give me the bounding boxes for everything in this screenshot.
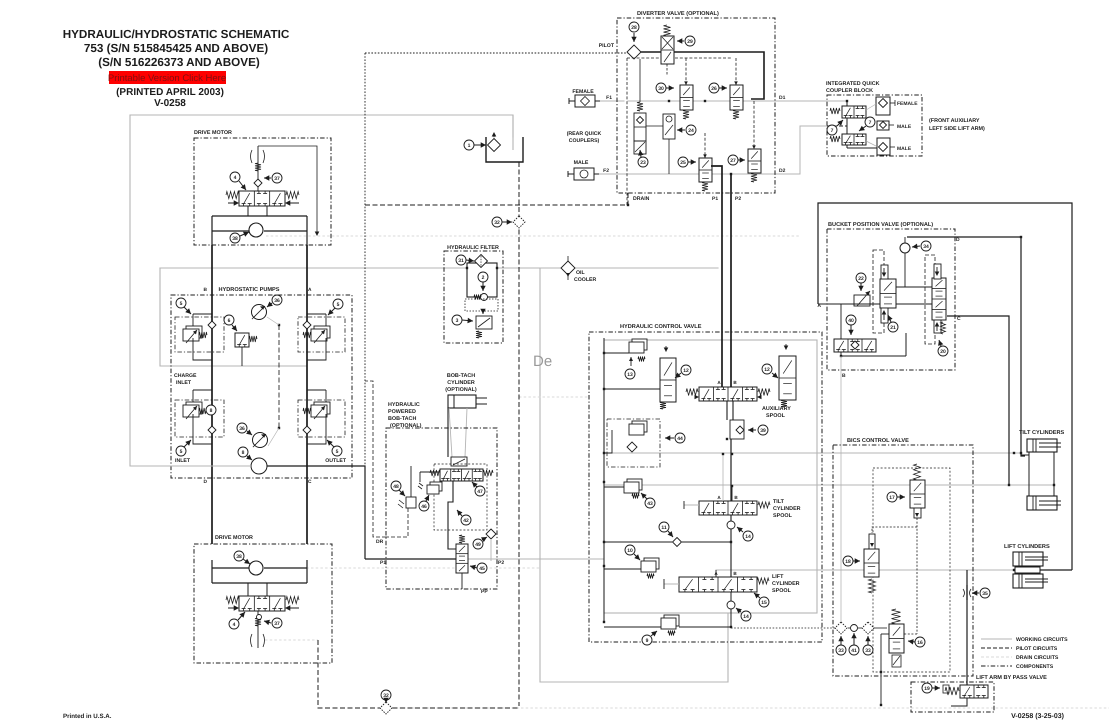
diamond 49 — [486, 529, 496, 539]
relief valve 10 — [604, 558, 659, 579]
svg-text:17: 17 — [889, 495, 895, 501]
wire 41-33 — [858, 627, 862, 629]
label 36 bottom — [237, 423, 247, 433]
wire hydrostatic loop right x307 — [306, 245, 308, 544]
svg-text:MALE: MALE — [897, 146, 912, 152]
svg-text:P2: P2 — [735, 196, 741, 202]
relief 44 box — [604, 419, 660, 467]
arrow 33 left — [838, 636, 843, 645]
arrow 7 lower — [837, 120, 843, 126]
pump bottom circle 36 — [253, 433, 268, 448]
svg-text:36: 36 — [239, 426, 245, 432]
wire D1 inside block — [827, 100, 847, 102]
wire tank drain vertical dashed — [518, 162, 520, 706]
arrow 24 — [677, 127, 685, 132]
drive motor top internals — [212, 146, 319, 245]
svg-text:(FRONT AUXILIARY: (FRONT AUXILIARY — [929, 118, 980, 124]
svg-text:49: 49 — [475, 542, 481, 548]
label 38 top — [230, 233, 240, 243]
svg-text:P1: P1 — [712, 196, 718, 202]
diamond 33 left — [835, 622, 847, 634]
strainer diamond — [488, 139, 501, 152]
junction tilt line a — [1013, 452, 1015, 454]
wire cylinder line 2 — [465, 408, 467, 457]
label 4 bottom — [229, 619, 239, 629]
label 38 bottom — [234, 551, 244, 561]
label 8 pump — [238, 447, 248, 457]
label 43 — [645, 498, 655, 508]
drive motor top circle — [249, 223, 263, 237]
svg-text:753 (S/N 515845425 AND ABOVE): 753 (S/N 515845425 AND ABOVE) — [84, 42, 268, 55]
spring left bottom drive valve — [226, 597, 239, 604]
svg-text:BUCKET POSITION VALVE (OPTIONA: BUCKET POSITION VALVE (OPTIONAL) — [828, 221, 933, 228]
label 7 upper — [865, 117, 875, 127]
arrow 43 — [641, 493, 647, 499]
wire tilt B port — [731, 486, 733, 501]
junction D corner — [1020, 236, 1022, 238]
orifice 14 lower — [727, 601, 735, 609]
wire D2 dashed inside — [827, 125, 847, 127]
svg-text:44: 44 — [677, 436, 683, 442]
arrow 38 to motor — [243, 559, 250, 564]
arrow 20 — [938, 340, 943, 346]
label 21 — [888, 322, 898, 332]
label 13 — [625, 369, 635, 379]
wire 40 feed — [840, 304, 842, 339]
wire hydrostatic loop left x212 — [211, 245, 213, 544]
wire B pilot drop to BICS — [840, 356, 842, 622]
label 6 — [224, 315, 234, 325]
bics control valve box — [833, 445, 973, 676]
arrow into bottom valve right — [285, 605, 290, 610]
arrow 9 — [651, 631, 657, 637]
node diamond D bottom — [208, 426, 216, 434]
bob-tach valve 46 — [418, 482, 442, 494]
wire bobtach to 45 — [448, 481, 456, 549]
bypass valve 3 — [476, 309, 492, 338]
node diamond A top — [303, 321, 311, 329]
wire pilot dashed to 25 — [704, 133, 706, 158]
oil cooler tick top — [567, 256, 569, 261]
svg-text:12: 12 — [764, 367, 770, 373]
wire working return loop bottom — [540, 268, 728, 682]
bics pilot dashed box — [873, 468, 950, 672]
wire bucket internal link 2 — [896, 303, 932, 305]
wire 45 down PP — [461, 573, 463, 589]
wire drive motor drain top — [266, 235, 519, 237]
svg-text:2: 2 — [482, 275, 485, 281]
filter diamond dotted — [480, 256, 482, 267]
wire drain line y236 — [519, 235, 800, 237]
hydrostatic pumps box — [171, 295, 352, 478]
arrow 8 pump — [246, 455, 252, 461]
drive motor top valve — [239, 191, 285, 206]
label 17 — [887, 492, 897, 502]
arrow 5 tr — [328, 308, 335, 315]
svg-text:DRAIN CIRCUITS: DRAIN CIRCUITS — [1016, 655, 1059, 661]
wire pilot line left vertical — [364, 53, 366, 543]
svg-text:9: 9 — [646, 638, 649, 644]
label 40 — [846, 315, 856, 325]
arrow to 32 lower — [383, 698, 388, 703]
bob-tach cylinder — [448, 395, 487, 408]
wire outlet to P1 — [267, 466, 365, 559]
label 1 strainer — [464, 140, 474, 150]
wire control valve left rail — [603, 338, 605, 622]
arrow 49 — [481, 537, 487, 542]
arrow 10 — [634, 554, 640, 560]
label 19 — [922, 683, 932, 693]
arrow 5 br — [327, 440, 334, 447]
label 4 top — [230, 172, 240, 182]
label 5 bottom-right — [332, 446, 342, 456]
svg-text:38: 38 — [236, 554, 242, 560]
arrow 5 tl — [184, 307, 191, 314]
label 32 lower — [381, 690, 391, 700]
wire F1-D1 through diverter — [628, 100, 775, 102]
wire P2 line to control valve — [468, 558, 604, 560]
label 18 — [843, 556, 853, 566]
wire coupler block bottom link — [847, 147, 877, 149]
arrow 14 lower — [736, 608, 742, 614]
arrow 22 — [858, 283, 863, 291]
wire bucket C to tilt lower — [947, 316, 1009, 486]
wire tilt cylinder line upper — [604, 452, 1021, 454]
wire 11 line — [604, 541, 672, 543]
junction tilt lower right — [1053, 484, 1055, 486]
diverter shuttle 24 — [646, 114, 675, 174]
wire DR dashed — [386, 508, 408, 537]
wire pilot 17 down dotted — [916, 518, 918, 634]
bics valve 18 — [864, 534, 879, 593]
svg-text:D2: D2 — [779, 168, 786, 174]
svg-text:LIFT ARM BY PASS VALVE: LIFT ARM BY PASS VALVE — [976, 675, 1047, 681]
svg-text:WORKING CIRCUITS: WORKING CIRCUITS — [1016, 637, 1068, 643]
wire 48 feed — [410, 466, 412, 497]
junction B — [840, 355, 842, 357]
svg-text:32: 32 — [494, 220, 500, 226]
label 36 top — [272, 295, 282, 305]
svg-text:CYLINDER: CYLINDER — [447, 380, 475, 386]
svg-text:D: D — [204, 479, 208, 485]
arrow 17 — [897, 494, 905, 499]
svg-text:C: C — [957, 316, 961, 322]
label 23 — [638, 157, 648, 167]
arrow 48 — [399, 490, 405, 496]
arrow 29 — [677, 38, 684, 43]
arrow 12 right — [772, 373, 778, 379]
wire pilot branch to 18 — [872, 527, 917, 533]
diverter valve 26 — [730, 81, 743, 119]
filter diamond — [475, 255, 488, 268]
svg-text:SPOOL: SPOOL — [773, 513, 793, 519]
wire drain line bottom — [380, 707, 1109, 709]
wire 11 line b — [682, 541, 731, 543]
svg-text:SPOOL: SPOOL — [772, 588, 792, 594]
svg-text:18: 18 — [845, 559, 851, 565]
svg-text:33: 33 — [838, 648, 844, 654]
svg-text:33: 33 — [865, 648, 871, 654]
tilt cylinder lower — [1027, 496, 1061, 510]
arrow into valve right — [285, 200, 290, 205]
label 37 bottom — [272, 618, 282, 628]
svg-text:C: C — [308, 479, 312, 485]
svg-text:DRIVE MOTOR: DRIVE MOTOR — [194, 130, 232, 136]
label 7 lower — [827, 125, 837, 135]
wire 34 down — [904, 253, 906, 287]
wire lift line to bypass — [966, 570, 968, 685]
svg-text:TILT CYLINDERS: TILT CYLINDERS — [1019, 430, 1065, 436]
wire F2 — [591, 173, 624, 175]
arrow 33 right — [865, 636, 870, 645]
arrow 44 — [665, 435, 674, 440]
bob-tach relief 48 — [398, 497, 416, 508]
svg-text:6: 6 — [228, 318, 231, 324]
lift cylinder spool valve — [664, 577, 769, 592]
wire rail to pilot valve 12 — [604, 388, 660, 390]
arrow 42 — [457, 510, 463, 516]
filter dotted sub-box — [465, 299, 498, 311]
coupler block male coupler 2 — [877, 138, 895, 155]
arrow 21 — [888, 315, 893, 322]
drive motor bottom internals — [212, 560, 307, 648]
label 14 lower — [741, 611, 751, 621]
arrow 23 — [638, 150, 643, 157]
svg-text:Printable Version Click Here: Printable Version Click Here — [108, 73, 226, 84]
svg-text:A: A — [717, 495, 721, 500]
svg-text:INLET: INLET — [175, 458, 191, 464]
arrow 27 — [738, 157, 745, 162]
svg-text:40: 40 — [848, 318, 854, 324]
oil cooler diamond — [561, 261, 575, 275]
label 45 — [477, 563, 487, 573]
node diamond B top — [208, 321, 216, 329]
arrow 12 left — [675, 373, 681, 379]
svg-text:46: 46 — [421, 504, 427, 510]
arrow 46 — [424, 495, 429, 501]
svg-text:(OPTIONAL): (OPTIONAL) — [445, 387, 477, 393]
lift cylinder connector — [1013, 567, 1072, 573]
svg-text:3: 3 — [456, 318, 459, 324]
bob-tach valve 45 — [456, 535, 468, 573]
svg-text:35: 35 — [982, 591, 988, 597]
label 16 — [915, 637, 925, 647]
wire working pump A inlet loop — [160, 268, 307, 366]
wire P below aux right — [732, 401, 734, 420]
spring right bottom drive valve — [286, 597, 299, 604]
drive motor top box — [194, 138, 331, 245]
svg-text:A: A — [308, 287, 312, 293]
wire main working return line y268 — [160, 267, 718, 269]
svg-text:P1: P1 — [380, 560, 386, 566]
bob-tach box — [386, 428, 497, 589]
arrow 11 — [668, 531, 674, 537]
arrow 36 top — [267, 302, 273, 308]
bypass valve 19 — [943, 685, 988, 698]
junction D1 — [846, 100, 848, 102]
wire pilot dashed to 27 — [753, 101, 755, 149]
arrow 41 — [851, 633, 856, 645]
bob-tach inner dotted box — [434, 464, 487, 530]
wire P below lift — [730, 592, 732, 627]
svg-text:39: 39 — [760, 428, 766, 434]
check ball 34 — [900, 243, 910, 253]
arrow into valve left — [234, 200, 239, 205]
junction 25 F1 — [704, 100, 706, 102]
svg-text:16: 16 — [917, 640, 923, 646]
junction P crossing — [731, 453, 733, 455]
svg-text:30: 30 — [658, 86, 664, 92]
svg-text:7: 7 — [869, 120, 872, 126]
strainer vent line — [493, 133, 495, 139]
wire pilot dashed to 26 — [735, 58, 737, 85]
charge pump circle 8 — [251, 458, 267, 474]
svg-text:37: 37 — [274, 176, 280, 182]
svg-text:MALE: MALE — [897, 124, 912, 130]
svg-text:5: 5 — [180, 301, 183, 307]
lift cylinder upper — [1013, 552, 1048, 566]
arrow 45 — [470, 565, 477, 570]
label 39 — [758, 425, 768, 435]
bucket valve right — [932, 264, 946, 334]
diverter valve 27 — [748, 145, 761, 182]
label 49 — [473, 539, 483, 549]
svg-text:37: 37 — [274, 621, 280, 627]
arrow 30 — [666, 85, 674, 90]
wire tilt A port up — [722, 454, 724, 501]
svg-text:B: B — [733, 571, 737, 576]
arrow 31 — [466, 258, 474, 263]
svg-text:B: B — [842, 373, 846, 379]
wire check up — [904, 237, 906, 243]
svg-text:COMPONENTS: COMPONENTS — [1016, 664, 1054, 670]
junction drain — [627, 204, 629, 206]
svg-text:27: 27 — [730, 158, 736, 164]
wire into 46 — [419, 472, 421, 482]
svg-text:SPOOL: SPOOL — [766, 413, 786, 419]
oil cooler arrow — [566, 273, 570, 277]
coupler block valve upper — [830, 106, 866, 118]
diverter solenoid valve 29 — [661, 25, 674, 76]
label 22 — [856, 273, 866, 283]
label 32 upper — [492, 217, 502, 227]
wire working outer frame left — [130, 115, 513, 466]
arrow 18 — [853, 558, 860, 563]
pump case drain dashed — [267, 317, 280, 446]
bob-tach pilot valve — [451, 457, 467, 466]
oil cooler tick bottom — [567, 275, 569, 280]
label 12 right — [762, 364, 772, 374]
label 28 — [629, 22, 639, 32]
relief valve 9 — [604, 615, 732, 636]
junction P2 D2 — [730, 173, 732, 175]
label 31 — [456, 255, 466, 265]
reservoir tank — [486, 115, 523, 162]
label 42 — [461, 515, 471, 525]
svg-text:OIL: OIL — [576, 270, 585, 276]
wire 49 down — [490, 539, 492, 561]
wire DR dashed to pilot rail — [365, 381, 386, 537]
svg-text:38: 38 — [232, 236, 238, 242]
pilot valve 12 left — [660, 346, 676, 409]
tilt cylinder upper — [1027, 439, 1061, 452]
svg-text:INTEGRATED QUICK: INTEGRATED QUICK — [826, 81, 880, 87]
label 5 bottom-left — [176, 446, 186, 456]
svg-text:DR: DR — [376, 539, 384, 545]
wire cylinder line 1 — [449, 408, 452, 457]
svg-text:F2: F2 — [603, 168, 609, 174]
svg-text:31: 31 — [458, 258, 464, 264]
wire pilot dashed top — [627, 57, 732, 59]
drive motor bottom circle — [249, 561, 263, 575]
svg-text:D1: D1 — [779, 95, 786, 101]
wire bucket A internal — [818, 303, 880, 305]
wire lift cylinder line — [716, 569, 1015, 571]
svg-text:28: 28 — [631, 25, 637, 31]
wire drain horizontal y205 — [365, 204, 628, 206]
wire pilot dashed to 30 — [685, 58, 687, 85]
label 33 right — [863, 645, 873, 655]
label 3 — [452, 315, 462, 325]
svg-text:TILT: TILT — [773, 499, 785, 505]
quick coupler block box — [827, 95, 922, 156]
svg-text:7: 7 — [831, 128, 834, 134]
svg-text:LEFT SIDE LIFT ARM): LEFT SIDE LIFT ARM) — [929, 126, 985, 132]
hydraulic filter box — [444, 251, 503, 343]
svg-text:20: 20 — [940, 349, 946, 355]
check diamond 32 lower — [380, 702, 392, 714]
pilot valve 12 right — [779, 344, 796, 407]
svg-text:48: 48 — [393, 484, 399, 490]
junction tilt line b — [1020, 452, 1022, 454]
wire bucket rail up — [905, 333, 907, 356]
orifice circle 37 bottom — [257, 615, 262, 620]
label 27 — [728, 155, 738, 165]
label 24 — [686, 125, 696, 135]
svg-text:12: 12 — [683, 368, 689, 374]
arrow 39 — [748, 427, 756, 432]
junction tilt lower left — [1008, 484, 1010, 486]
label 14 upper — [743, 531, 753, 541]
pump relief top-left — [175, 314, 224, 360]
label 9 — [642, 635, 652, 645]
arrow 3 — [462, 318, 473, 323]
wire drive motor bottom drain exit — [265, 639, 318, 641]
label 46 — [419, 501, 429, 511]
wire lift A port up — [715, 570, 717, 577]
svg-text:BOB-TACH: BOB-TACH — [388, 416, 416, 422]
arrow 26 — [719, 85, 727, 90]
bob-tach main valve — [430, 469, 493, 481]
arrow 28 down — [631, 33, 636, 42]
svg-text:DIVERTER VALVE (OPTIONAL): DIVERTER VALVE (OPTIONAL) — [637, 10, 719, 17]
wire F1 — [591, 100, 624, 102]
wire D1 to coupler block — [775, 100, 827, 102]
svg-text:41: 41 — [851, 648, 857, 654]
arrow 37 to diamond — [264, 175, 271, 180]
arrow 15 — [754, 593, 760, 599]
junction 24 F1 — [668, 100, 670, 102]
label 15 — [759, 597, 769, 607]
svg-text:43: 43 — [647, 501, 653, 507]
wire 40 out — [840, 352, 842, 356]
wire pilot dotted y628 to BICS — [731, 627, 836, 629]
filter element — [466, 263, 498, 301]
svg-text:45: 45 — [479, 566, 485, 572]
svg-text:D: D — [956, 237, 960, 243]
bucket flow control 22 — [854, 291, 870, 306]
label 10 — [625, 545, 635, 555]
